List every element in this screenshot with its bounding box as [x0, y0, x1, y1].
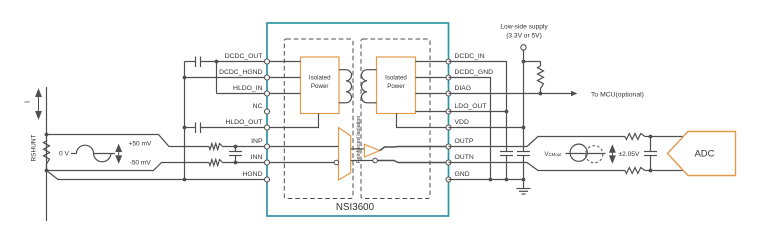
capacitor: LDO_OUT to GND — [506, 112, 508, 152]
wire: shunt branch main vertical — [46, 87, 48, 221]
svg-text:INN: INN — [251, 154, 263, 161]
svg-text:LDO_OUT: LDO_OUT — [455, 103, 487, 110]
arrow: 50mV swing — [116, 145, 121, 163]
current arrow I — [36, 90, 41, 119]
chip NSI3600 outline — [267, 23, 449, 216]
wire: HGND line — [47, 171, 265, 180]
ground symbol — [523, 180, 525, 189]
internal wires left block — [267, 61, 301, 63]
buffer amp triangle — [364, 144, 379, 157]
svg-text:OUTN: OUTN — [455, 154, 474, 161]
svg-text:0 V: 0 V — [59, 150, 69, 157]
resistor: DIAG pull-up — [524, 61, 541, 63]
isolation dashed box left — [284, 39, 353, 199]
svg-text:To MCU(optional): To MCU(optional) — [591, 91, 644, 98]
block: Isolated Power left — [301, 57, 340, 114]
svg-text:Isolated: Isolated — [309, 75, 331, 82]
capacitor: ADC input filter — [650, 137, 652, 152]
resistor: OUTP series — [625, 134, 645, 140]
resistor RSHUNT — [44, 141, 50, 164]
wire INP into modulator — [267, 146, 339, 148]
wire HLDO_IN tied to DCDC_OUT — [215, 60, 219, 64]
wire OUTP to ADC network — [449, 137, 626, 147]
svg-text:VDD: VDD — [455, 119, 469, 126]
wire OUTN to ADC network — [449, 163, 626, 171]
svg-text:OUTP: OUTP — [455, 138, 474, 145]
arrow: 2.05V swing — [610, 146, 615, 163]
wire modulator to buffer — [351, 148, 365, 150]
pin circles left — [265, 59, 270, 64]
svg-text:NC: NC — [253, 103, 263, 110]
node: shunt bottom — [45, 169, 49, 173]
wire VDD to right block bottom — [397, 114, 449, 128]
svg-text:DIAG: DIAG — [455, 85, 472, 92]
wire DCDC_IN from supply — [449, 62, 507, 112]
wire: sense top edge to INP — [47, 135, 210, 147]
wire VDD row — [449, 127, 524, 129]
wire LDO_OUT from right block — [416, 111, 449, 113]
wire DCDC_GND down to GND — [449, 78, 491, 180]
svg-text:(3.3V or 5V): (3.3V or 5V) — [506, 33, 542, 40]
wire INN into modulator with bubble — [267, 162, 334, 164]
wire DCDC_OUT — [201, 61, 265, 63]
wire INP to pin — [223, 146, 265, 148]
wire OUTP from buffer — [380, 147, 449, 151]
wire OUTN path with bubble — [351, 160, 373, 162]
node: shunt top — [45, 133, 49, 137]
internal wires right block — [416, 61, 449, 63]
svg-text:Reinforced Isolation: Reinforced Isolation — [356, 116, 362, 164]
supply terminal — [521, 45, 526, 50]
wire DIAG to MCU arrow — [449, 93, 572, 95]
block: Isolated Power right — [377, 57, 416, 114]
isolation dashed box right — [361, 39, 430, 199]
capacitor: VDD to GND — [517, 151, 530, 153]
wire: left ground bus — [184, 62, 186, 180]
capacitor: HLDO_OUT bypass — [195, 123, 197, 134]
wire HLDO_OUT to left block bottom — [267, 114, 319, 128]
resistor: INN series — [209, 160, 223, 166]
wire HLDO_OUT — [185, 127, 196, 129]
svg-text:HLDO_OUT: HLDO_OUT — [225, 119, 262, 126]
resistor: INP series — [209, 144, 223, 150]
modulator trapezoid — [339, 128, 351, 181]
svg-text:DCDC_OUT: DCDC_OUT — [225, 53, 263, 60]
ADC block — [668, 132, 736, 176]
svg-text:DCDC_IN: DCDC_IN — [455, 53, 485, 60]
capacitor: input differential — [235, 147, 237, 152]
svg-text:GND: GND — [455, 171, 470, 178]
wire DCDC_HGND — [185, 77, 265, 79]
resistor: OUTN series — [625, 168, 645, 174]
svg-text:±2.05V: ±2.05V — [619, 151, 640, 158]
svg-text:HGND: HGND — [242, 171, 262, 178]
wire: sense bottom edge to INN — [47, 163, 210, 171]
wire INN to pin — [223, 162, 265, 164]
svg-text:Power: Power — [387, 83, 405, 90]
transformer primary coil — [339, 69, 346, 71]
pin circles right — [446, 59, 451, 64]
svg-text:DCDC_GND: DCDC_GND — [455, 69, 494, 76]
capacitor: DCDC_OUT bypass — [195, 57, 197, 68]
svg-text:-50 mV: -50 mV — [130, 160, 152, 167]
svg-text:DCDC_HGND: DCDC_HGND — [219, 69, 263, 76]
transformer secondary coil — [367, 69, 377, 71]
svg-text:Isolated: Isolated — [385, 75, 407, 82]
svg-text:+50 mV: +50 mV — [129, 140, 153, 147]
svg-text:I: I — [23, 101, 32, 103]
wire GND row — [449, 179, 524, 181]
svg-text:INP: INP — [251, 138, 263, 145]
supply rail down to VDD cap — [523, 62, 525, 152]
svg-text:ADC: ADC — [694, 149, 714, 160]
svg-text:RSHUNT: RSHUNT — [30, 134, 37, 161]
svg-text:Low-side supply: Low-side supply — [500, 24, 548, 31]
wire LDO_OUT to DCDC_IN net — [449, 111, 507, 113]
svg-text:HLDO_IN: HLDO_IN — [233, 85, 263, 92]
svg-text:NSI3600: NSI3600 — [336, 202, 375, 213]
svg-text:Power: Power — [311, 83, 329, 90]
